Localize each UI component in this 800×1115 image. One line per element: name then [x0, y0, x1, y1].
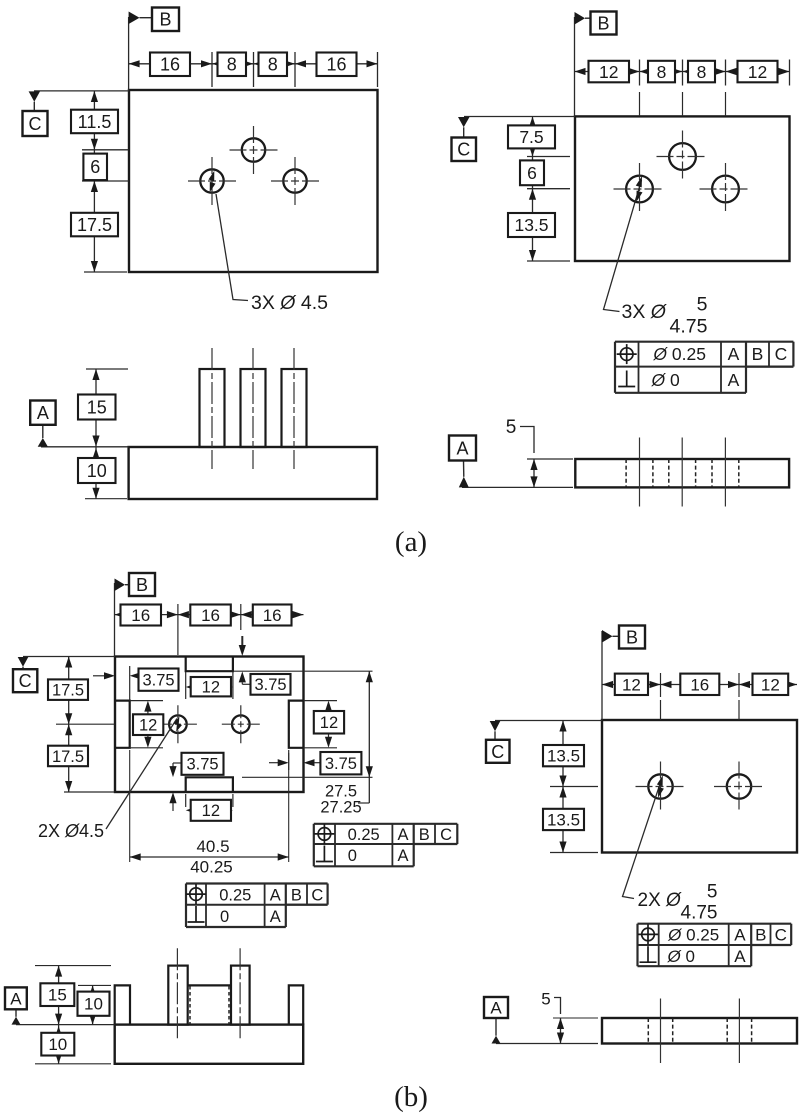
- dim box 8 (right), part (a) front view: [259, 53, 288, 77]
- horizontal dimension line 12-8-8-12, part (a) mating plate: [575, 60, 790, 117]
- svg-text:Ø 0.25: Ø 0.25: [667, 926, 719, 945]
- hole 1 (3X diam 5), part (a) mating plate: [614, 163, 666, 215]
- plate outline, part (b) mating plate top view: [602, 720, 797, 853]
- svg-text:3.75: 3.75: [325, 755, 357, 773]
- horizontal dimension line 16-16-16, part (b) front view: [115, 604, 304, 655]
- datum B label, part (b) front view: [115, 573, 156, 657]
- svg-text:13.5: 13.5: [547, 810, 580, 829]
- dimension 5, part (a) mating plate side view: [506, 417, 573, 487]
- dimension 3.75 top notch depth arrows, part (b) front view: [233, 636, 373, 684]
- svg-text:8: 8: [227, 55, 237, 75]
- datum A label, part (a) mating plate side view: [449, 436, 573, 488]
- dim box 11.5, part (a) front view: [71, 110, 118, 134]
- hidden edge left, part (b) side view: [189, 986, 191, 1024]
- pin 3 centerline, part (a) side view: [293, 348, 295, 469]
- plate outline, part (b) mating plate side view: [602, 1018, 797, 1044]
- svg-text:6: 6: [90, 157, 100, 177]
- hidden hole edge 5, part (a) mating plate side view: [711, 459, 713, 487]
- dim box 6, part (a) mating plate: [520, 160, 544, 185]
- dim box 12 (right), part (b) mating plate: [753, 674, 789, 695]
- hidden hole edge 3, part (a) mating plate side view: [668, 459, 670, 487]
- dimension 12 right slot height arrows, part (b) front view: [304, 701, 338, 748]
- pin 1 centerline, part (b) side view: [176, 948, 178, 1039]
- svg-text:5: 5: [541, 990, 550, 1009]
- svg-text:A: A: [728, 344, 740, 364]
- dimension line 10 (boss height), part (b) side view: [78, 985, 111, 1024]
- svg-text:10: 10: [48, 1035, 67, 1054]
- svg-text:16: 16: [160, 55, 180, 75]
- hidden hole edge 4, part (a) mating plate side view: [695, 459, 697, 487]
- svg-text:8: 8: [697, 62, 707, 82]
- dim box 10 (lower), part (b) side view: [41, 1033, 74, 1056]
- pin 1 outline, part (b) side view: [168, 966, 187, 1025]
- svg-text:0: 0: [348, 847, 357, 865]
- svg-text:16: 16: [690, 675, 709, 694]
- hidden hole edge 1, part (b) mating plate side view: [647, 1018, 649, 1044]
- svg-text:Ø 0: Ø 0: [651, 370, 680, 390]
- svg-text:0.25: 0.25: [219, 886, 251, 904]
- dim box 16 (left), part (a) front view: [150, 53, 190, 77]
- hole 3 (3X diam 5), part (a) mating plate: [700, 163, 752, 215]
- hole 1 centerline, part (a) mating plate side view: [639, 438, 641, 507]
- datum C label, part (a) front view: [23, 91, 130, 136]
- datum B label, part (a) mating plate: [575, 12, 617, 117]
- svg-text:7.5: 7.5: [519, 127, 543, 147]
- svg-text:B: B: [626, 627, 638, 647]
- dimension line 10 (base), part (b) side view: [35, 1025, 111, 1064]
- svg-text:3.75: 3.75: [186, 756, 218, 774]
- dim box 13.5, part (a) mating plate: [508, 213, 555, 237]
- dim box 3.75 (top right), part (b) front view: [251, 674, 291, 695]
- pin 2 centerline, part (a) side view: [252, 348, 254, 469]
- svg-text:A: A: [270, 886, 281, 904]
- svg-text:A: A: [270, 908, 281, 926]
- horizontal dimension line 16-8-8-16, part (a) front view: [129, 52, 378, 87]
- right wall, part (b) side view: [289, 985, 303, 1024]
- vertical dimension line 17.5-17.5, part (b) front view: [56, 657, 115, 793]
- hidden hole edge 2, part (a) mating plate side view: [652, 459, 654, 487]
- svg-text:3.75: 3.75: [142, 672, 174, 690]
- horizontal dimension line 12-16-12, part (b) mating plate: [602, 673, 797, 720]
- feature control frame (lower), part (b) front view: [186, 884, 328, 928]
- svg-text:B: B: [755, 926, 766, 945]
- dim box 12 (left), part (b) mating plate: [615, 674, 648, 695]
- svg-text:3X Ø: 3X Ø: [622, 301, 668, 323]
- vertical dimension line 13.5-13.5, part (b) mating plate: [550, 721, 598, 853]
- hole 2 centerline, part (a) mating plate side view: [681, 438, 683, 507]
- dimension 40.5 / 40.25, part (b) front view: [130, 750, 289, 877]
- bottom notch, part (b) front view: [186, 777, 233, 792]
- dimension 12 top notch width arrows, part (b) front view: [186, 672, 233, 699]
- dim box 8 (right), part (a) mating plate: [688, 61, 715, 83]
- hole 2 centerline, part (b) mating plate side view: [738, 999, 740, 1064]
- dim box 13.5 (upper), part (b) mating plate: [543, 745, 584, 766]
- hidden hole edge 3, part (b) mating plate side view: [726, 1018, 728, 1044]
- svg-text:Ø 0.25: Ø 0.25: [652, 344, 706, 364]
- leader 2X diam 5 / 4.75, part (b) mating plate: [623, 775, 718, 923]
- svg-text:C: C: [19, 671, 32, 691]
- caption (a): [395, 526, 427, 558]
- svg-text:12: 12: [139, 717, 157, 735]
- svg-text:3X Ø 4.5: 3X Ø 4.5: [251, 292, 328, 314]
- svg-text:C: C: [29, 114, 42, 134]
- dim box 3.75 (top left), part (b) front view: [139, 669, 179, 691]
- dim box 16 (right), part (b) front view: [253, 605, 292, 626]
- svg-text:4.75: 4.75: [681, 903, 718, 924]
- dimension line 15, part (b) side view: [35, 966, 111, 1025]
- dim box 15, part (a) side view: [78, 395, 116, 420]
- leader 3X diam 5 / 4.75, part (a) mating plate: [604, 176, 708, 338]
- svg-text:40.25: 40.25: [190, 858, 233, 877]
- hidden hole edge 2, part (b) mating plate side view: [672, 1018, 674, 1044]
- dimension 12 bottom notch width arrows, part (b) front view: [186, 794, 233, 814]
- hole 3 (3X diam 4.5), part (a) front view: [271, 157, 319, 205]
- svg-text:13.5: 13.5: [514, 215, 548, 235]
- svg-text:15: 15: [48, 986, 67, 1005]
- svg-text:A: A: [734, 926, 746, 945]
- dim box 12 (right), part (b) front view: [314, 711, 344, 734]
- dim box 16, part (b) mating plate: [680, 674, 719, 695]
- svg-text:6: 6: [527, 163, 537, 183]
- datum A label, part (a) side view: [30, 401, 128, 447]
- svg-text:(b): (b): [394, 1081, 428, 1113]
- svg-text:17.5: 17.5: [77, 215, 112, 235]
- svg-text:11.5: 11.5: [78, 112, 112, 132]
- svg-text:3.75: 3.75: [254, 676, 286, 694]
- svg-text:8: 8: [268, 55, 278, 75]
- svg-text:16: 16: [201, 606, 220, 625]
- plate outline, part (a) mating plate side view: [575, 459, 789, 487]
- dim box 7.5, part (a) mating plate: [508, 125, 555, 148]
- datum C label, part (b) front view: [13, 657, 115, 693]
- dim box 12 (top), part (b) front view: [191, 677, 231, 697]
- right slot, part (b) front view: [289, 701, 304, 748]
- dim box 12 (right), part (a) mating plate: [738, 61, 778, 83]
- hidden hole edge 6, part (a) mating plate side view: [738, 459, 740, 487]
- vertical dimension line 11.5-6-17.5, part (a) front view: [82, 91, 129, 272]
- svg-text:4.75: 4.75: [670, 316, 708, 338]
- hole 1 (2X diam 4.5), part (b) front view: [159, 705, 197, 743]
- svg-text:16: 16: [131, 606, 150, 625]
- svg-text:B: B: [291, 886, 302, 904]
- pin 2 outline, part (b) side view: [231, 966, 250, 1025]
- pin 1 outline, part (a) side view: [200, 369, 225, 447]
- hole 1 (3X diam 4.5), part (a) front view: [188, 157, 236, 205]
- datum B label, part (b) mating plate: [602, 626, 645, 721]
- dim box 12 (left), part (b) front view: [133, 714, 163, 735]
- dim box 10, part (a) side view: [78, 458, 116, 483]
- top notch, part (b) front view: [186, 657, 233, 672]
- svg-text:8: 8: [657, 62, 667, 82]
- dim box 12 (left), part (a) mating plate: [589, 61, 630, 83]
- dim box 15, part (b) side view: [40, 983, 74, 1006]
- left slot, part (b) front view: [115, 701, 130, 748]
- hole 2 (2X diam 5), part (b) mating plate: [714, 762, 764, 812]
- svg-text:15: 15: [87, 397, 107, 417]
- leader 3X diam 4.5, part (a) front view: [209, 171, 329, 314]
- dimension 27.5 / 27.25, part (b) front view: [242, 671, 373, 816]
- dim box 10 (inner), part (b) side view: [78, 992, 110, 1016]
- svg-text:16: 16: [326, 55, 346, 75]
- svg-text:Ø 0: Ø 0: [667, 947, 695, 966]
- svg-text:C: C: [775, 344, 788, 364]
- svg-text:C: C: [457, 140, 470, 160]
- dim box 17.5, part (a) front view: [71, 213, 118, 237]
- svg-text:17.5: 17.5: [52, 748, 84, 766]
- svg-text:C: C: [491, 742, 504, 762]
- caption (b): [394, 1081, 428, 1113]
- svg-text:(a): (a): [395, 526, 427, 558]
- feature control frame, part (b) mating plate: [638, 924, 792, 967]
- svg-text:10: 10: [84, 995, 103, 1014]
- svg-text:2X Ø: 2X Ø: [638, 890, 683, 911]
- svg-text:C: C: [311, 886, 323, 904]
- dimension 3.75 left slot depth arrows, part (b) front view: [93, 666, 141, 701]
- dim box 17.5 (lower), part (b) front view: [48, 746, 88, 767]
- svg-text:B: B: [159, 10, 171, 30]
- svg-text:12: 12: [622, 675, 641, 694]
- datum A label, part (b) mating plate side view: [484, 997, 598, 1044]
- svg-text:12: 12: [748, 62, 767, 82]
- dim box 12 (bottom), part (b) front view: [191, 800, 231, 821]
- svg-text:B: B: [136, 575, 148, 595]
- pin 2 centerline, part (b) side view: [239, 948, 241, 1039]
- hidden edge right, part (b) side view: [228, 986, 230, 1024]
- dim box 6, part (a) front view: [83, 154, 107, 181]
- svg-text:A: A: [397, 847, 408, 865]
- dim box 16 (middle), part (b) front view: [190, 605, 231, 626]
- hole 1 (2X diam 5), part (b) mating plate: [636, 762, 686, 812]
- hole 2 (3X diam 4.5), part (a) front view: [230, 126, 278, 174]
- svg-text:A: A: [10, 989, 22, 1008]
- svg-text:B: B: [597, 13, 609, 33]
- svg-text:12: 12: [599, 62, 618, 82]
- svg-text:2X Ø4.5: 2X Ø4.5: [38, 821, 104, 841]
- datum B label, part (a) front view: [129, 8, 179, 91]
- svg-text:0: 0: [220, 908, 229, 926]
- hole 2 (3X diam 5), part (a) mating plate: [657, 131, 709, 183]
- plate outline, part (b) front view: [115, 657, 304, 793]
- base plate outline, part (a) side view: [129, 447, 377, 499]
- hidden hole edge 1, part (a) mating plate side view: [625, 459, 627, 487]
- pin 2 outline, part (a) side view: [241, 369, 266, 447]
- svg-text:A: A: [490, 999, 502, 1018]
- svg-text:5: 5: [506, 417, 517, 438]
- svg-text:B: B: [419, 826, 430, 844]
- svg-text:A: A: [734, 947, 746, 966]
- dim box 17.5 (upper), part (b) front view: [48, 679, 88, 700]
- dimension line 15, part (a) side view: [86, 369, 128, 447]
- svg-text:40.5: 40.5: [196, 837, 229, 856]
- svg-text:12: 12: [761, 675, 780, 694]
- svg-text:B: B: [752, 344, 764, 364]
- dim box 8 (left), part (a) front view: [218, 53, 247, 77]
- pin 1 centerline, part (a) side view: [211, 348, 213, 469]
- dimension 3.75 bottom notch depth arrows, part (b) front view: [169, 763, 181, 811]
- center boss top edge, part (b) side view: [188, 984, 231, 986]
- dim box 3.75 (bottom), part (b) front view: [182, 753, 224, 775]
- hole 3 centerline, part (a) mating plate side view: [724, 438, 726, 507]
- svg-text:10: 10: [87, 461, 107, 481]
- svg-text:12: 12: [202, 679, 220, 697]
- base plate outline, part (b) side view: [115, 1025, 304, 1064]
- dim box 13.5 (lower), part (b) mating plate: [543, 809, 584, 830]
- svg-text:16: 16: [263, 606, 282, 625]
- datum A label, part (b) side view: [5, 987, 115, 1024]
- svg-text:12: 12: [202, 802, 220, 820]
- dimension 5, part (b) mating plate side view: [541, 990, 598, 1044]
- dimension 12 left slot height arrows, part (b) front view: [130, 701, 163, 748]
- vertical dimension line 7.5-6-13.5, part (a) mating plate: [527, 117, 570, 262]
- hidden hole edge 4, part (b) mating plate side view: [751, 1018, 753, 1044]
- dimension line 10, part (a) side view: [85, 447, 127, 499]
- svg-text:A: A: [37, 403, 49, 423]
- svg-text:0.25: 0.25: [348, 826, 380, 844]
- hole 1 centerline, part (b) mating plate side view: [660, 999, 662, 1064]
- svg-text:A: A: [728, 370, 740, 390]
- dim box 16 (left), part (b) front view: [121, 605, 162, 626]
- svg-text:17.5: 17.5: [52, 682, 84, 700]
- svg-text:5: 5: [697, 294, 708, 316]
- dim box 3.75 (bottom right), part (b) front view: [320, 752, 361, 774]
- datum C label, part (a) mating plate: [452, 117, 576, 162]
- datum C label, part (b) mating plate: [486, 721, 602, 763]
- dim box 16 (right), part (a) front view: [317, 53, 357, 77]
- svg-text:5: 5: [707, 882, 718, 903]
- pin 3 outline, part (a) side view: [282, 369, 307, 447]
- dim box 8 (left), part (a) mating plate: [648, 61, 675, 83]
- feature control frame, part (a) mating plate: [615, 342, 793, 393]
- left wall, part (b) side view: [115, 985, 130, 1024]
- plate outline, part (a) front view: [129, 90, 378, 272]
- svg-text:12: 12: [320, 714, 338, 732]
- svg-text:A: A: [456, 438, 468, 458]
- svg-text:C: C: [440, 826, 452, 844]
- svg-text:A: A: [397, 826, 408, 844]
- feature control frame (upper), part (b) front view: [314, 824, 458, 867]
- hole 2 (2X diam 4.5), part (b) front view: [222, 705, 260, 743]
- dimension 3.75 right slot depth arrows, part (b) front view: [269, 750, 320, 770]
- svg-text:13.5: 13.5: [547, 747, 580, 766]
- svg-text:27.25: 27.25: [320, 799, 361, 817]
- leader 2X diam 4.5, part (b) front view: [38, 717, 182, 841]
- svg-text:C: C: [775, 926, 787, 945]
- plate outline, part (a) mating plate top view: [575, 116, 790, 261]
